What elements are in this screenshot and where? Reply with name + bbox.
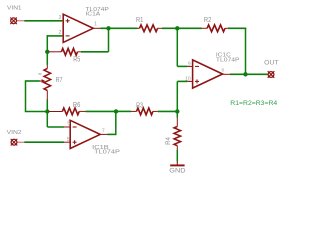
wire R1 to R2	[162, 27, 202, 29]
svg-text:IC1A: IC1A	[85, 12, 100, 18]
pin 10 lead of IC1C	[187, 80, 193, 82]
pin 6 lead of IC1B	[64, 126, 70, 128]
wire R3 to node E	[158, 110, 178, 112]
wire node B down	[46, 112, 48, 128]
svg-text:OUT: OUT	[264, 60, 279, 67]
junction node D	[114, 109, 118, 113]
wire loop bottom	[25, 111, 48, 113]
junction IC1A output	[106, 26, 110, 30]
svg-text:1: 1	[94, 22, 97, 28]
svg-text:R3: R3	[136, 100, 143, 109]
pin 9 lead of IC1C	[187, 65, 193, 67]
svg-text:VIN1: VIN1	[7, 5, 22, 11]
wire IC1B output	[107, 133, 116, 135]
wire R4 to GND	[176, 150, 178, 162]
wire node A to R7 top	[46, 52, 48, 65]
svg-text:2: 2	[59, 30, 62, 36]
wire IC1C output	[230, 73, 267, 75]
op-amp IC1B	[70, 120, 100, 148]
wire to pin 9	[177, 65, 187, 67]
svg-text:R5: R5	[73, 54, 80, 63]
wire pin 2 horizontal	[47, 35, 62, 37]
svg-text:R1: R1	[136, 15, 143, 24]
potentiometer R7 wiper arrow	[40, 79, 46, 83]
connector pad VIN1 lead	[17, 20, 25, 22]
wire VIN2 to pin 5	[24, 141, 64, 143]
potentiometer R7 bottom lead	[46, 90, 48, 99]
resistor R1	[140, 25, 158, 32]
resistor R2	[207, 25, 225, 32]
pin 2 lead of IC1A	[62, 35, 63, 37]
svg-text:TL074P: TL074P	[94, 150, 120, 156]
svg-text:VIN2: VIN2	[7, 130, 22, 136]
svg-text:R6: R6	[73, 100, 80, 109]
junction node A	[45, 50, 49, 54]
wire node E to R4	[176, 111, 178, 117]
svg-text:9: 9	[188, 61, 191, 67]
svg-text:3: 3	[59, 15, 62, 21]
pin 1 output lead of IC1A	[93, 27, 100, 29]
wire to pin 10	[177, 80, 187, 82]
wire R7 bottom to node B	[46, 99, 48, 111]
resistor R2 left lead	[202, 27, 207, 29]
svg-text:7: 7	[102, 128, 105, 134]
pin 7 output lead of IC1B	[100, 133, 107, 135]
wire R5 right	[81, 51, 109, 53]
resistor R6	[62, 108, 79, 115]
junction node B	[45, 109, 49, 113]
resistor R1 right lead	[158, 27, 163, 29]
wire R2 to feedback corner	[228, 27, 246, 29]
wire VIN1 to pin 3	[24, 20, 62, 22]
wire node C drop to pin 9	[176, 28, 178, 66]
resistor R5 left lead	[49, 51, 62, 53]
svg-text:10: 10	[185, 76, 191, 82]
svg-text:8: 8	[38, 72, 43, 75]
ground	[170, 161, 184, 165]
pin 3 lead of IC1A	[62, 20, 63, 22]
pin 5 lead of IC1B	[64, 141, 70, 143]
resistor R2 right lead	[225, 27, 228, 29]
connector pad VIN2 lead	[17, 141, 24, 143]
resistor R6 left lead	[49, 111, 63, 113]
connector pad VIN2	[11, 139, 18, 146]
wire R5 riser to output	[108, 28, 110, 52]
resistor R5 right lead	[78, 51, 82, 53]
connector pad OUT lead	[267, 73, 268, 75]
op-amp IC1C	[193, 60, 223, 88]
resistor R3	[137, 108, 153, 115]
wire node D to R3	[116, 110, 131, 112]
svg-text:R2: R2	[204, 15, 211, 24]
wire wiper drop	[25, 80, 27, 111]
wire IC1A output	[100, 27, 137, 29]
junction node C (R1-R2)	[175, 26, 179, 30]
svg-text:R1=R2=R3=R4: R1=R2=R3=R4	[230, 100, 278, 107]
resistor R4 bottom lead	[176, 146, 178, 150]
wire wiper horizontal	[26, 80, 40, 82]
potentiometer R7 top lead	[46, 65, 48, 69]
wire R6 to node D	[86, 110, 116, 112]
wire feedback drop	[245, 28, 247, 75]
op-amp IC1A	[63, 14, 93, 42]
wire IC1B output riser	[115, 111, 117, 135]
resistor R5	[61, 48, 77, 55]
svg-text:8: 8	[221, 68, 224, 73]
svg-text:R7: R7	[56, 75, 63, 84]
junction output feedback	[243, 72, 247, 76]
wire pin 2 to node A	[46, 35, 48, 52]
wire node E riser to pin 10	[176, 81, 178, 111]
svg-text:GND: GND	[169, 168, 185, 175]
svg-text:6: 6	[67, 121, 70, 127]
svg-text:R4: R4	[165, 137, 172, 145]
resistor R6 right lead	[79, 110, 86, 112]
resistor R3 right lead	[153, 110, 158, 112]
connector pad OUT	[268, 71, 275, 78]
svg-text:5: 5	[67, 137, 70, 143]
connector pad VIN1	[10, 18, 17, 25]
potentiometer R7	[44, 69, 51, 91]
pin 8 output lead of IC1C	[223, 73, 231, 75]
resistor R3 left lead	[131, 110, 137, 112]
junction node E (R3-R4)	[175, 109, 179, 113]
svg-text:TL074P: TL074P	[216, 57, 240, 63]
resistor R4	[174, 127, 181, 146]
wire to pin 6	[47, 126, 64, 128]
resistor R4 top lead	[176, 117, 178, 126]
resistor R1 left lead	[137, 27, 139, 29]
